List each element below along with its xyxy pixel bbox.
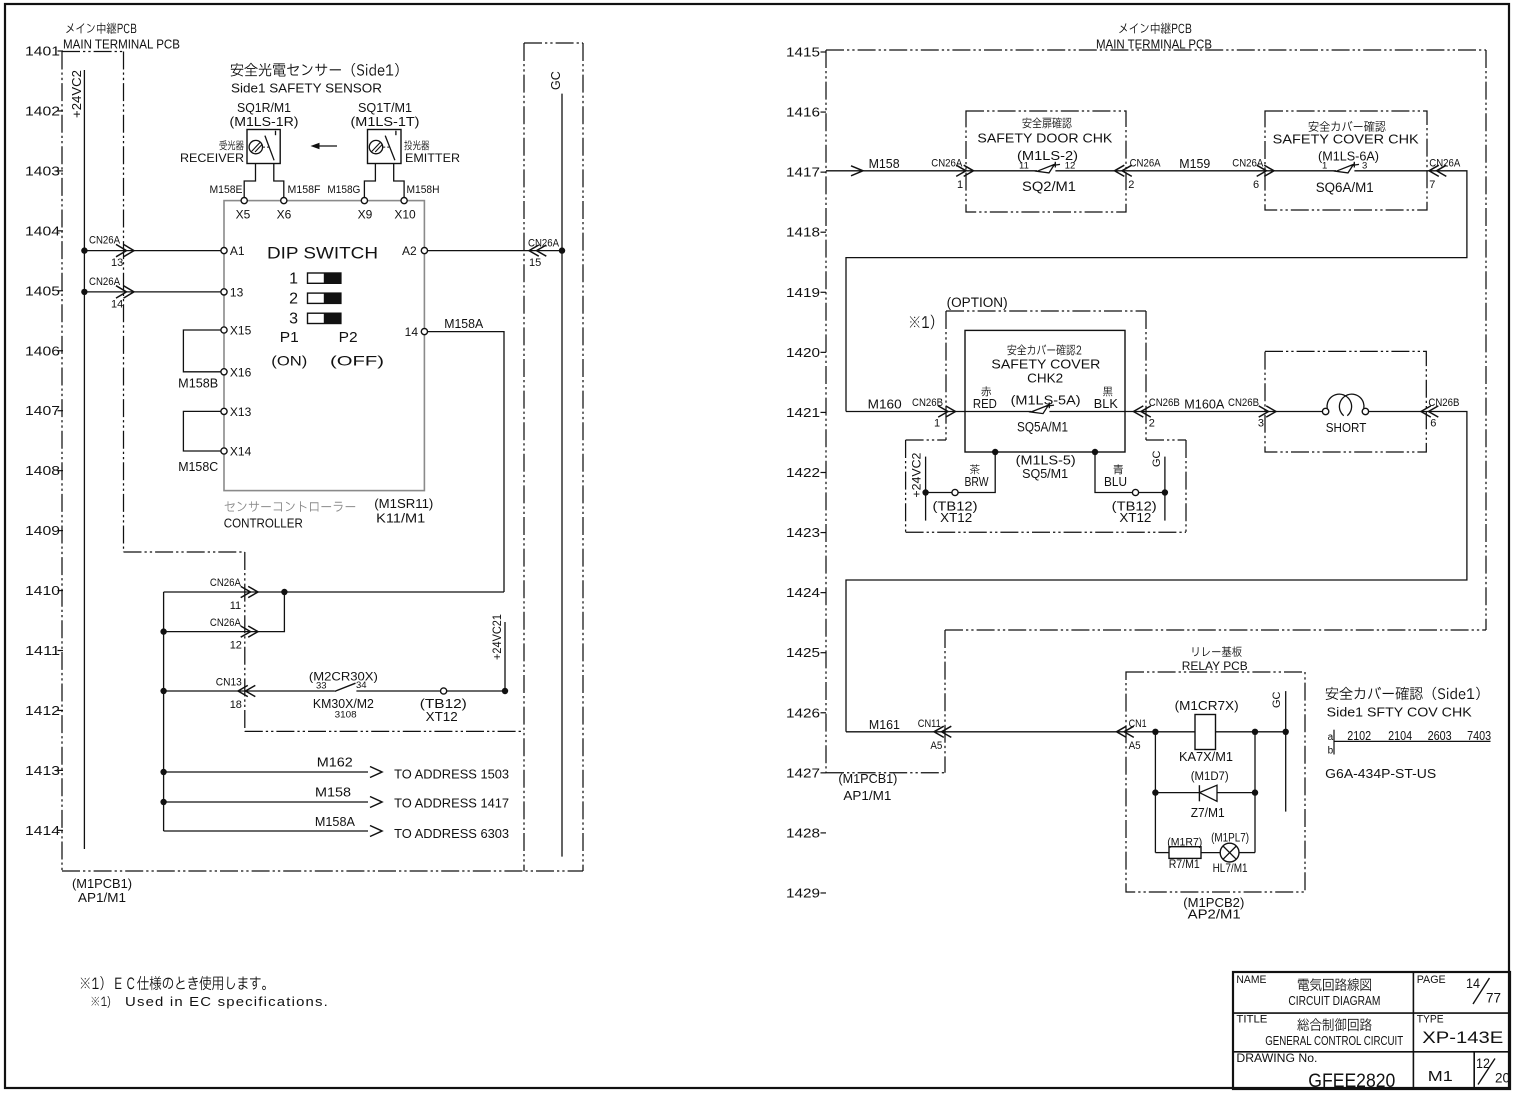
- svg-text:CN26A: CN26A: [210, 617, 242, 629]
- label main terminal pcb (right): [1119, 23, 1191, 35]
- svg-text:CN26B: CN26B: [1149, 397, 1180, 409]
- wire M159: [1126, 170, 1265, 172]
- svg-text:(TB12): (TB12): [420, 697, 467, 711]
- svg-text:M158: M158: [869, 157, 900, 171]
- svg-text:M158G: M158G: [327, 184, 360, 196]
- svg-text:CIRCUIT DIAGRAM: CIRCUIT DIAGRAM: [1288, 994, 1380, 1008]
- svg-text:M158E: M158E: [210, 184, 243, 196]
- svg-text:15: 15: [529, 257, 541, 269]
- svg-text:12: 12: [230, 640, 242, 652]
- terminal X14: [221, 448, 227, 454]
- svg-text:13: 13: [230, 286, 244, 300]
- svg-text:1427: 1427: [786, 766, 820, 780]
- svg-text:1415: 1415: [786, 46, 820, 60]
- block M1PCB1 outline (right): [826, 49, 1486, 51]
- svg-text:X16: X16: [230, 365, 252, 379]
- svg-text:RECEIVER: RECEIVER: [180, 151, 244, 165]
- svg-text:(M2CR30X): (M2CR30X): [309, 670, 378, 684]
- svg-text:A5: A5: [1129, 740, 1141, 752]
- svg-text:PAGE: PAGE: [1417, 974, 1446, 986]
- label side1 safety sensor: [231, 63, 399, 77]
- svg-text:a: a: [1328, 732, 1334, 743]
- terminal A1: [221, 248, 227, 254]
- svg-text:SQ1T/M1: SQ1T/M1: [358, 101, 412, 115]
- short plug box: [1265, 351, 1426, 452]
- left leg brown wire: [958, 452, 995, 493]
- svg-text:6: 6: [1430, 418, 1436, 430]
- safety cover chk box SQ6A/M1: [1265, 111, 1427, 210]
- svg-text:11: 11: [1019, 161, 1029, 172]
- svg-text:SQ2/M1: SQ2/M1: [1022, 179, 1076, 194]
- svg-text:CN26A: CN26A: [89, 276, 121, 288]
- svg-text:1418: 1418: [786, 226, 820, 240]
- svg-text:1: 1: [934, 418, 940, 430]
- svg-text:2104: 2104: [1388, 729, 1412, 743]
- svg-text:CN26A: CN26A: [1429, 157, 1461, 169]
- svg-text:18: 18: [230, 699, 242, 711]
- branch bus vertical (left): [163, 592, 165, 831]
- svg-text:AP1/M1: AP1/M1: [843, 789, 891, 803]
- svg-text:DRAWING No.: DRAWING No.: [1236, 1053, 1317, 1065]
- svg-text:GFEE2820: GFEE2820: [1308, 1071, 1395, 1092]
- jumper loop M158C between X13 X14: [183, 411, 221, 451]
- svg-text:1423: 1423: [786, 526, 820, 540]
- svg-text:CN26B: CN26B: [1428, 397, 1459, 409]
- svg-text:2: 2: [1128, 179, 1134, 191]
- svg-text:DIP SWITCH: DIP SWITCH: [267, 244, 378, 262]
- svg-text:BLU: BLU: [1104, 475, 1127, 489]
- svg-text:1: 1: [1322, 161, 1327, 172]
- svg-text:(M1D7): (M1D7): [1191, 771, 1229, 783]
- svg-text:77: 77: [1486, 990, 1501, 1006]
- svg-text:P2: P2: [339, 329, 358, 346]
- svg-text:RED: RED: [973, 397, 997, 411]
- svg-text:Z7/M1: Z7/M1: [1191, 806, 1225, 820]
- svg-text:(M1R7): (M1R7): [1167, 837, 1202, 849]
- svg-text:1409: 1409: [25, 524, 60, 538]
- svg-text:(OPTION): (OPTION): [947, 295, 1008, 310]
- svg-text:XT12: XT12: [426, 710, 458, 724]
- svg-text:2102: 2102: [1347, 729, 1371, 743]
- annotation side1 safety cover chk: [1326, 687, 1480, 700]
- svg-text:13: 13: [111, 257, 123, 269]
- svg-text:CN26A: CN26A: [1232, 157, 1264, 169]
- wire from short loop down to relay row: [846, 412, 1467, 732]
- svg-text:NAME: NAME: [1236, 974, 1266, 986]
- svg-text:SQ6A/M1: SQ6A/M1: [1316, 180, 1374, 195]
- svg-text:CN26B: CN26B: [1228, 397, 1259, 409]
- svg-text:SAFETY COVER: SAFETY COVER: [991, 357, 1100, 372]
- svg-text:1402: 1402: [25, 104, 60, 118]
- svg-text:X15: X15: [230, 324, 252, 338]
- svg-text:R7/M1: R7/M1: [1169, 857, 1200, 871]
- svg-text:CHK2: CHK2: [1027, 371, 1063, 386]
- short plug symbol: [1265, 411, 1322, 413]
- wire loop right down to row 1419: [846, 171, 1467, 412]
- emitter sensor box: [368, 130, 402, 164]
- contact KM30X/M2 blade and pins 33 34: [335, 683, 356, 691]
- svg-text:M160: M160: [868, 398, 902, 412]
- wire row CN13-18 with contact KM30X: [164, 690, 335, 692]
- svg-text:2: 2: [289, 291, 298, 308]
- svg-text:M162: M162: [317, 756, 353, 770]
- svg-text:Used in EC specifications.: Used in EC specifications.: [125, 995, 329, 1009]
- svg-text:SQ5A/M1: SQ5A/M1: [1017, 420, 1068, 435]
- svg-text:CONTROLLER: CONTROLLER: [224, 517, 303, 531]
- svg-text:CN1: CN1: [1129, 718, 1147, 730]
- svg-text:SQ1R/M1: SQ1R/M1: [237, 101, 291, 115]
- svg-text:K11/M1: K11/M1: [376, 511, 425, 525]
- svg-text:3: 3: [1362, 161, 1367, 172]
- svg-text:11: 11: [230, 600, 241, 612]
- svg-text:1410: 1410: [25, 584, 60, 598]
- label note ref 1: [910, 315, 934, 330]
- svg-text:1: 1: [289, 271, 298, 288]
- svg-text:(M1LS-5A): (M1LS-5A): [1011, 393, 1081, 408]
- svg-text:MAIN TERMINAL PCB: MAIN TERMINAL PCB: [63, 38, 180, 52]
- svg-text:1404: 1404: [25, 224, 60, 238]
- right leg blue wire: [1095, 452, 1132, 493]
- safety door chk box SQ2/M1: [966, 111, 1126, 212]
- svg-text:1403: 1403: [25, 164, 60, 178]
- svg-text:(M1SR11): (M1SR11): [374, 497, 433, 511]
- svg-text:CN26B: CN26B: [912, 397, 943, 409]
- receiver wires to terminals X5 X6: [244, 164, 255, 198]
- resistor R7/M1 and lamp HL7/M1 branch: [1155, 852, 1169, 854]
- svg-text:AP1/M1: AP1/M1: [78, 891, 126, 905]
- svg-text:1428: 1428: [786, 826, 820, 840]
- terminal X10: [401, 198, 407, 204]
- receiver sensor box: [247, 130, 280, 164]
- svg-text:M161: M161: [869, 718, 900, 732]
- wire row CN26A-12 with riser: [164, 592, 285, 632]
- contact SQ2/M1 (limit switch): [966, 170, 1037, 172]
- svg-text:1412: 1412: [25, 704, 60, 718]
- svg-text:7403: 7403: [1467, 729, 1491, 743]
- svg-text:SAFETY COVER CHK: SAFETY COVER CHK: [1273, 132, 1419, 147]
- svg-text:CN26A: CN26A: [210, 577, 242, 589]
- svg-text:(M1PCB1): (M1PCB1): [838, 772, 897, 786]
- svg-text:2: 2: [1149, 418, 1155, 430]
- safety cover chk2 box SQ5A/M1: [965, 330, 1125, 452]
- svg-text:M158C: M158C: [178, 460, 218, 474]
- svg-text:20: 20: [1495, 1071, 1510, 1086]
- relay coil KA7X/M1: [1195, 715, 1216, 750]
- beam arrow: [313, 145, 337, 147]
- svg-text:P1: P1: [280, 329, 299, 346]
- wire M158A to address 6303: [164, 830, 368, 832]
- svg-text:1420: 1420: [786, 346, 820, 360]
- svg-text:1421: 1421: [786, 406, 820, 420]
- wire M158A from pin14: [428, 332, 505, 592]
- svg-text:X14: X14: [230, 445, 252, 459]
- svg-text:TYPE: TYPE: [1417, 1014, 1444, 1026]
- terminal 14 (pin): [421, 329, 427, 335]
- svg-text:X6: X6: [277, 208, 292, 222]
- svg-text:M158A: M158A: [444, 317, 484, 331]
- svg-text:CN11: CN11: [918, 718, 941, 730]
- relay pcb box M1PCB2: [1126, 672, 1305, 892]
- connector CN26B-2: [1134, 406, 1144, 417]
- svg-text:3: 3: [1258, 418, 1264, 430]
- svg-text:(M1CR7X): (M1CR7X): [1175, 699, 1239, 713]
- svg-text:Side1 SAFETY SENSOR: Side1 SAFETY SENSOR: [231, 82, 382, 96]
- svg-text:A2: A2: [402, 244, 417, 258]
- svg-text:EMITTER: EMITTER: [405, 151, 460, 165]
- footnote EC spec (english): [92, 996, 111, 1008]
- svg-text:GENERAL CONTROL CIRCUIT: GENERAL CONTROL CIRCUIT: [1265, 1034, 1403, 1048]
- contact SQ6A/M1: [1265, 170, 1336, 172]
- label main terminal pcb (left): [66, 23, 136, 35]
- wire CN26A-14 to 13: [84, 291, 221, 293]
- svg-text:X10: X10: [394, 208, 416, 222]
- svg-text:(ON): (ON): [271, 353, 307, 369]
- terminal X15: [221, 327, 227, 333]
- svg-text:GC: GC: [1271, 691, 1283, 708]
- label 受光器 receiver: [220, 140, 244, 150]
- label sensor controller (gray): [225, 501, 356, 512]
- wire A2 to GC CN26A-15: [428, 250, 563, 252]
- option box outline: [946, 310, 1146, 312]
- svg-text:TO ADDRESS 6303: TO ADDRESS 6303: [394, 826, 509, 841]
- svg-text:M158B: M158B: [178, 377, 218, 391]
- terminal A2: [421, 248, 427, 254]
- svg-text:1425: 1425: [786, 646, 820, 660]
- svg-text:HL7/M1: HL7/M1: [1213, 861, 1248, 875]
- svg-text:1419: 1419: [786, 286, 820, 300]
- svg-text:1426: 1426: [786, 706, 820, 720]
- terminal TB12 XT12 (left): [441, 688, 447, 694]
- svg-text:6: 6: [1253, 179, 1259, 191]
- svg-text:(M1LS-1R): (M1LS-1R): [230, 115, 299, 129]
- svg-text:1406: 1406: [25, 344, 60, 358]
- connector CN26A-7: [1429, 165, 1439, 176]
- svg-text:1416: 1416: [786, 106, 820, 120]
- svg-text:X13: X13: [230, 405, 252, 419]
- svg-text:+24VC21: +24VC21: [490, 614, 504, 660]
- connector CN26B-3: [1266, 406, 1276, 417]
- terminal X16: [221, 369, 227, 375]
- svg-text:14: 14: [405, 325, 419, 339]
- svg-text:(M1PL7): (M1PL7): [1211, 833, 1249, 845]
- svg-text:KA7X/M1: KA7X/M1: [1179, 749, 1233, 764]
- connector CN26A-6: [1264, 165, 1274, 176]
- svg-text:1422: 1422: [786, 466, 820, 480]
- svg-text:X5: X5: [236, 208, 251, 222]
- svg-text:M158A: M158A: [315, 815, 356, 829]
- svg-text:14: 14: [111, 299, 123, 311]
- svg-text:3108: 3108: [335, 710, 357, 721]
- wire M161 row: [846, 731, 1195, 733]
- svg-text:7: 7: [1429, 179, 1435, 191]
- svg-text:1408: 1408: [25, 464, 60, 478]
- svg-text:RELAY PCB: RELAY PCB: [1182, 659, 1248, 673]
- svg-text:BRW: BRW: [965, 475, 989, 489]
- svg-text:AP2/M1: AP2/M1: [1188, 908, 1241, 922]
- block M1PCB1 main terminal pcb outline (left): [62, 51, 124, 53]
- svg-text:M158F: M158F: [288, 184, 321, 196]
- wire row CN26A-11: [164, 591, 504, 593]
- svg-text:Side1 SFTY COV CHK: Side1 SFTY COV CHK: [1327, 705, 1472, 720]
- svg-text:3: 3: [289, 311, 298, 328]
- svg-text:A5: A5: [930, 740, 942, 752]
- svg-text:TO ADDRESS 1417: TO ADDRESS 1417: [394, 796, 509, 811]
- svg-text:XP-143E: XP-143E: [1422, 1028, 1503, 1047]
- svg-text:BLK: BLK: [1094, 397, 1119, 411]
- svg-text:SQ5/M1: SQ5/M1: [1022, 466, 1068, 481]
- wire CN26A-13 to A1: [84, 250, 221, 252]
- jumper loop M158B between X15 X16: [183, 330, 221, 372]
- svg-text:+24VC2: +24VC2: [910, 452, 924, 497]
- label 投光器 emitter: [404, 140, 429, 150]
- svg-text:14: 14: [1466, 975, 1480, 991]
- svg-text:1424: 1424: [786, 586, 820, 600]
- svg-text:CN26A: CN26A: [1130, 157, 1162, 169]
- footnote EC spec (japanese): [81, 976, 266, 990]
- svg-text:1413: 1413: [25, 764, 60, 778]
- terminal 13: [221, 289, 227, 295]
- svg-text:1417: 1417: [786, 166, 820, 180]
- GC bus strip outline (left): [524, 42, 583, 44]
- contact SQ5A/M1: [1031, 405, 1049, 414]
- svg-text:GC: GC: [1151, 450, 1163, 467]
- chk2 bottom legs with TB12 terminals: [992, 449, 998, 455]
- svg-text:1411: 1411: [25, 644, 60, 658]
- svg-text:G6A-434P-ST-US: G6A-434P-ST-US: [1325, 766, 1436, 781]
- terminal X5: [241, 198, 247, 204]
- svg-text:XT12: XT12: [940, 511, 972, 525]
- svg-text:GC: GC: [549, 71, 563, 90]
- svg-text:M1: M1: [1428, 1068, 1453, 1085]
- svg-text:SHORT: SHORT: [1326, 420, 1367, 435]
- diode Z7/M1 branch: [1154, 732, 1156, 853]
- controller box M1SR11 (gray): [224, 201, 424, 491]
- svg-text:1407: 1407: [25, 404, 60, 418]
- connector CN26B-6: [1421, 406, 1431, 417]
- emitter wires to terminals X9 X10: [364, 164, 375, 198]
- svg-text:TO ADDRESS 1503: TO ADDRESS 1503: [394, 767, 509, 782]
- svg-text:(OFF): (OFF): [330, 353, 384, 369]
- svg-text:+24VC2: +24VC2: [70, 70, 84, 118]
- svg-text:CN26A: CN26A: [528, 238, 560, 250]
- svg-text:1414: 1414: [25, 824, 60, 838]
- svg-text:M158: M158: [315, 786, 351, 800]
- svg-text:CN26A: CN26A: [89, 235, 121, 247]
- connector CN26A-2: [1115, 165, 1125, 176]
- svg-text:CN26A: CN26A: [931, 157, 963, 169]
- terminal X13: [221, 408, 227, 414]
- wire M158 into SQ2: [826, 170, 966, 172]
- wire M162 to address 1503: [164, 771, 368, 773]
- svg-text:(M1LS-1T): (M1LS-1T): [351, 115, 420, 129]
- terminal X6: [281, 198, 287, 204]
- svg-text:b: b: [1328, 746, 1334, 757]
- svg-text:1405: 1405: [25, 284, 60, 298]
- svg-text:SAFETY DOOR CHK: SAFETY DOOR CHK: [977, 131, 1112, 146]
- svg-text:1401: 1401: [25, 45, 60, 59]
- wire M158 to address 1417: [164, 801, 368, 803]
- terminal X9: [361, 198, 367, 204]
- svg-text:M158H: M158H: [407, 184, 440, 196]
- svg-text:1429: 1429: [786, 886, 820, 900]
- svg-text:CN13: CN13: [216, 677, 242, 689]
- svg-text:(M1PCB1): (M1PCB1): [72, 877, 132, 891]
- wire M160 CN26B-1: [846, 411, 1031, 413]
- svg-text:TITLE: TITLE: [1236, 1014, 1267, 1026]
- svg-text:M160A: M160A: [1184, 398, 1225, 412]
- svg-text:M159: M159: [1179, 157, 1210, 171]
- svg-text:1: 1: [957, 179, 963, 191]
- svg-text:12: 12: [1065, 161, 1076, 172]
- svg-text:XT12: XT12: [1119, 511, 1151, 525]
- svg-text:X9: X9: [358, 208, 373, 222]
- title block frame: [1233, 972, 1510, 1089]
- svg-text:2603: 2603: [1428, 729, 1452, 743]
- svg-text:A1: A1: [230, 244, 245, 258]
